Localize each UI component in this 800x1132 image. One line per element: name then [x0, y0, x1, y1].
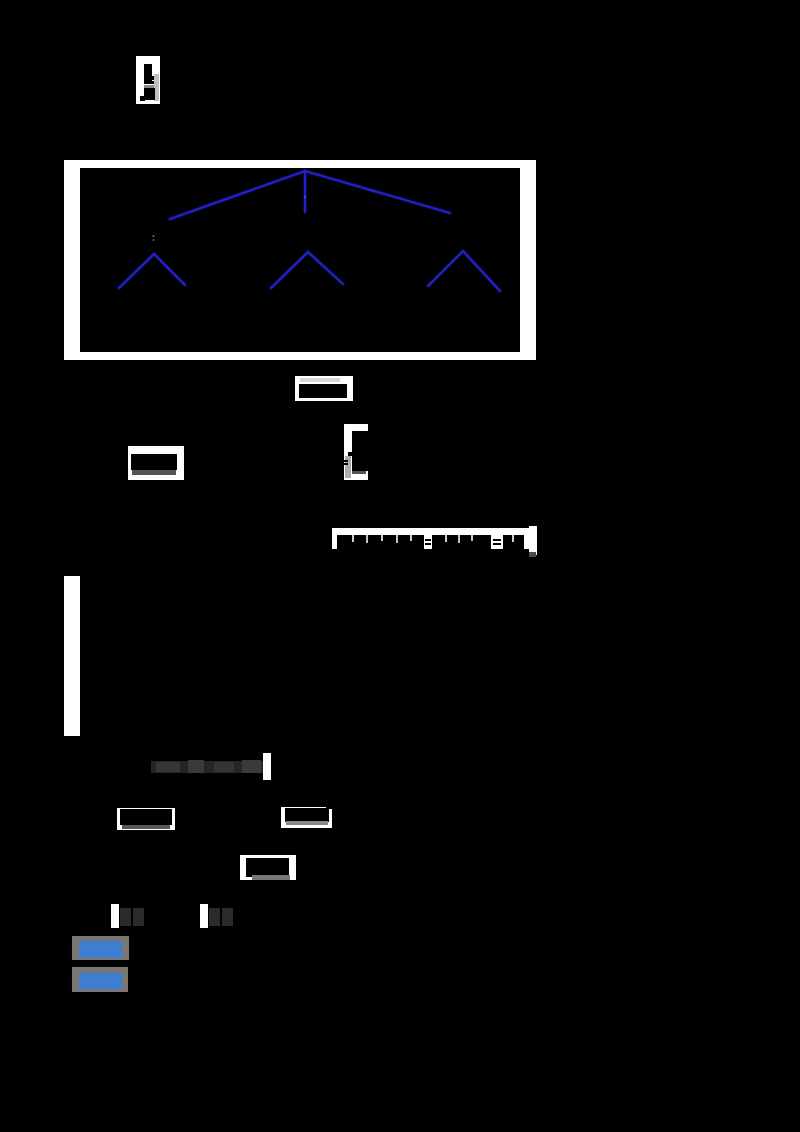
- black interior of figure: [80, 168, 520, 352]
- small formula bit right: [200, 904, 208, 928]
- edge root to middle child: [304, 172, 306, 212]
- fraction denominator "3": [144, 88, 155, 100]
- fraction gray shade: [144, 85, 155, 89]
- formula image row2 right: [281, 807, 332, 828]
- fraction bar: [144, 81, 157, 84]
- dim formula row (dark gray): [151, 761, 263, 773]
- middle subtree right edge: [308, 252, 343, 284]
- blockquote white bar: [64, 576, 80, 736]
- formula image: fraction 1/3 (white background): [136, 56, 160, 104]
- right subtree left edge: [428, 251, 463, 286]
- formula image left (f(x)...): [128, 446, 184, 480]
- fraction numerator "1": [144, 64, 152, 81]
- caption formula image below figure: [295, 376, 353, 401]
- left subtree right edge: [154, 254, 185, 285]
- tag box 2 (gray with blue text): [72, 967, 128, 992]
- left subtree left edge: [119, 254, 154, 288]
- wide equation strip: [332, 528, 531, 549]
- formula image row3 center: [240, 855, 296, 880]
- formula image fraction (tall): [344, 424, 368, 480]
- right subtree right edge: [463, 251, 500, 291]
- tag box 1 (gray with blue text): [72, 936, 129, 960]
- middle subtree left edge: [271, 252, 308, 288]
- formula image row2 left: [117, 808, 175, 830]
- small formula bit left: [111, 904, 119, 928]
- edge root to left child: [170, 171, 305, 219]
- white frame of figure: [64, 160, 536, 360]
- faint node label specks: [153, 235, 155, 237]
- edge root to right child: [305, 171, 450, 213]
